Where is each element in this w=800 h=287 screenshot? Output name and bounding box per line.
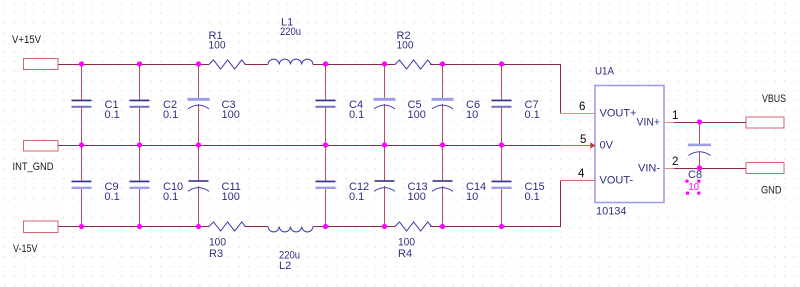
wire bottom rail segment 1 (58, 226, 209, 228)
capacitor C4 (316, 64, 365, 145)
port V-15V (13, 221, 58, 255)
junction bottom rail C15 (499, 224, 504, 229)
svg-text:0V: 0V (600, 140, 614, 152)
wire bottom rail segment 4 with corner up (430, 181, 561, 227)
svg-text:0.1: 0.1 (525, 191, 540, 203)
capacitor C13 polarized (374, 145, 428, 227)
capacitor C5 polarized (374, 64, 426, 145)
capacitor C6 polarized (432, 64, 481, 145)
svg-text:VBUS: VBUS (762, 93, 786, 105)
junction mid rail C2 (137, 142, 142, 147)
inductor L2 (268, 227, 313, 273)
op-amp U1A box (595, 66, 664, 218)
wire top rail segment 3 (313, 64, 395, 66)
capacitor C3 polarized (188, 64, 240, 145)
wire bottom rail segment 2 (245, 226, 269, 228)
svg-text:2: 2 (672, 156, 678, 168)
capacitor C15 (492, 145, 545, 227)
junction top rail C5 (382, 61, 387, 66)
svg-text:100: 100 (408, 109, 426, 121)
svg-text:VIN-: VIN- (638, 163, 660, 175)
pin 2 (664, 156, 678, 169)
svg-text:100: 100 (209, 237, 226, 249)
resistor R3 (209, 222, 246, 260)
svg-text:VOUT+: VOUT+ (600, 108, 637, 120)
svg-text:0.1: 0.1 (349, 109, 364, 121)
capacitor C8 polarized (688, 122, 711, 181)
port INT_GND (13, 141, 59, 174)
capacitor C7 (492, 64, 540, 145)
capacitor C11 polarized (188, 145, 241, 227)
junction bottom rail C11 (196, 224, 201, 229)
svg-text:V+15V: V+15V (12, 34, 42, 46)
svg-text:10134: 10134 (596, 206, 627, 218)
capacitor C9 (72, 145, 120, 227)
pin 5 with input arrow (560, 134, 595, 149)
svg-text:V-15V: V-15V (13, 243, 38, 255)
pin 6 (561, 101, 596, 114)
junction bottom rail C14 (440, 224, 445, 229)
svg-text:100: 100 (222, 191, 240, 203)
svg-text:INT_GND: INT_GND (13, 161, 54, 173)
svg-text:100: 100 (209, 40, 226, 52)
junction top rail C4 (323, 61, 328, 66)
svg-text:10: 10 (466, 109, 478, 121)
junction mid rail C7 (499, 142, 504, 147)
junction mid rail C1 (79, 142, 84, 147)
wire top rail segment 2 (245, 64, 269, 66)
junction GND net C8 (697, 165, 702, 170)
junction top rail C2 (137, 61, 142, 66)
svg-text:VIN+: VIN+ (637, 117, 661, 129)
svg-text:C8: C8 (688, 169, 702, 181)
inductor L1 (268, 17, 313, 65)
svg-text:GND: GND (761, 185, 782, 197)
svg-text:100: 100 (397, 40, 414, 52)
capacitor C1 (72, 64, 120, 145)
svg-text:4: 4 (578, 168, 585, 180)
svg-text:R4: R4 (398, 248, 412, 260)
junction top rail C7 (499, 61, 504, 66)
junction mid rail C6 (440, 142, 445, 147)
resistor R1 (209, 30, 246, 69)
svg-text:10: 10 (689, 181, 700, 193)
port GND (746, 163, 784, 197)
svg-text:L2: L2 (279, 260, 291, 272)
wire bottom rail segment 3 (313, 226, 395, 228)
wire mid rail (58, 145, 560, 147)
svg-text:0.1: 0.1 (349, 191, 364, 203)
resistor R4 (395, 222, 431, 260)
svg-text:R3: R3 (209, 248, 223, 260)
resistor R2 (395, 30, 431, 69)
port VBUS (746, 93, 786, 128)
port V+15V (12, 34, 58, 70)
junction top rail C1 (79, 61, 84, 66)
svg-text:0.1: 0.1 (163, 109, 178, 121)
svg-text:VOUT-: VOUT- (600, 175, 634, 187)
svg-text:100: 100 (222, 109, 240, 121)
wire top rail segment 1 (58, 64, 209, 66)
junction top rail C6 (440, 61, 445, 66)
svg-text:6: 6 (579, 101, 585, 113)
svg-text:1: 1 (672, 110, 678, 122)
svg-text:100: 100 (408, 191, 426, 203)
svg-text:0.1: 0.1 (105, 109, 120, 121)
junction bottom rail C13 (382, 224, 387, 229)
junction bottom rail C12 (323, 224, 328, 229)
junction mid rail C5 (382, 142, 387, 147)
junction top rail C3 (196, 61, 201, 66)
capacitor C12 (316, 145, 370, 227)
svg-text:0.1: 0.1 (105, 191, 120, 203)
svg-text:0.1: 0.1 (525, 109, 540, 121)
capacitor C14 polarized (432, 145, 486, 227)
wire top rail segment 4 with corner down (430, 65, 561, 114)
junction VBUS net C8 (697, 119, 702, 124)
svg-text:100: 100 (398, 237, 415, 249)
wire VIN+ to VBUS (672, 122, 746, 124)
junction bottom rail C10 (137, 224, 142, 229)
junction mid rail C4 (323, 142, 328, 147)
svg-text:220u: 220u (280, 26, 301, 38)
pin 1 (664, 110, 678, 123)
capacitor C2 (130, 64, 179, 145)
value 10 of C8 selected (685, 180, 700, 195)
junction mid rail C3 (196, 142, 201, 147)
junction bottom rail C9 (79, 224, 84, 229)
pin 4 (561, 168, 596, 181)
wire VIN- to GND (672, 168, 746, 170)
capacitor C10 (130, 145, 184, 227)
svg-text:10: 10 (466, 191, 478, 203)
svg-text:U1A: U1A (595, 66, 615, 78)
svg-text:0.1: 0.1 (163, 191, 178, 203)
svg-text:5: 5 (580, 134, 586, 146)
